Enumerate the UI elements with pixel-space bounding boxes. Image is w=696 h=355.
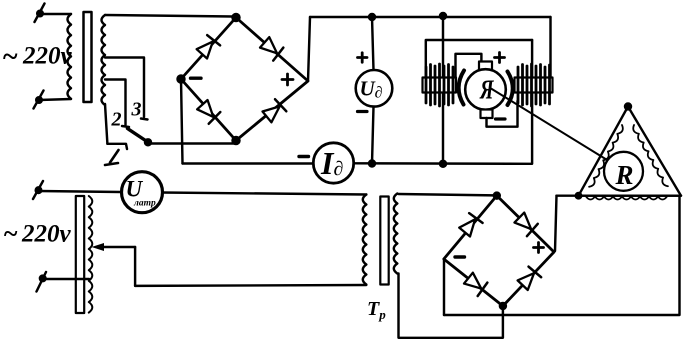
voltmeter Ud body bbox=[356, 70, 393, 107]
label plus bridge2 bbox=[534, 246, 544, 249]
wire secondary bottom to contact 1 bbox=[105, 104, 107, 144]
field winding right turns bbox=[518, 64, 550, 106]
diode VD1.1 top-left bbox=[195, 34, 220, 59]
wire base right corner down and bottom bbox=[444, 196, 680, 315]
wire terminal to T1 primary top bbox=[40, 13, 71, 15]
wire terminal to LATR bbox=[43, 278, 89, 280]
diode VD1.4 bottom-right bbox=[262, 99, 287, 124]
svg-text:220v: 220v bbox=[22, 43, 73, 70]
brush top bbox=[479, 62, 492, 71]
transformer T1 secondary winding bbox=[102, 15, 106, 105]
wire motor inner right vertical bbox=[531, 40, 533, 164]
rheostat dial R body bbox=[604, 152, 643, 191]
label minus ammeter bbox=[299, 155, 309, 158]
field winding left turns bbox=[426, 64, 453, 106]
wire voltmeter top lead bbox=[372, 17, 374, 70]
diode VD2.1 top-left bbox=[458, 212, 482, 237]
wire rheostat base bbox=[557, 194, 682, 196]
svg-text:3: 3 bbox=[131, 99, 142, 121]
voltmeter Ulatr body bbox=[122, 172, 163, 213]
wire bottom rail left bbox=[183, 162, 314, 164]
wire bridge2 top to Tp secondary top bbox=[399, 194, 495, 195]
rheostat body triangle bbox=[579, 107, 682, 196]
contact 2 tick bbox=[122, 126, 129, 127]
wire Tp primary top from Ulatr bbox=[161, 193, 366, 195]
svg-text:латр: латр bbox=[133, 199, 156, 209]
autotransformer LATR core bbox=[76, 196, 84, 313]
switch arm bbox=[128, 129, 149, 143]
wire bottom brush loop bbox=[487, 101, 518, 127]
wire bottom rail right bbox=[354, 162, 532, 165]
transformer Tp secondary winding bbox=[394, 194, 398, 274]
diode VD2.4 bottom-right bbox=[516, 266, 541, 291]
label plus voltmeter bbox=[358, 56, 368, 59]
wire bridge2 bottom loop to Tp secondary bottom bbox=[399, 274, 503, 338]
wire terminal to voltmeter Ulatr bbox=[39, 191, 121, 192]
wire motor inner loop top bbox=[426, 40, 532, 78]
wire T1 primary bottom to terminal bbox=[39, 99, 71, 100]
wire bridge2 minus down bbox=[443, 259, 445, 315]
rheostat winding right bbox=[631, 125, 668, 188]
brush holder arc left bbox=[459, 71, 464, 105]
diode VD2.2 top-right bbox=[514, 211, 539, 236]
ammeter Id body bbox=[313, 143, 353, 183]
svg-text:~: ~ bbox=[3, 219, 18, 248]
svg-text:2: 2 bbox=[111, 109, 122, 131]
contact bar 1 bbox=[107, 144, 127, 149]
transformer T1 primary winding bbox=[68, 14, 72, 99]
wire bridge1 plus up to top rail bbox=[308, 17, 310, 81]
node bridge2 top bbox=[494, 193, 500, 199]
wire left winding to plus brush bbox=[456, 54, 482, 78]
armature body bbox=[465, 69, 506, 110]
label minus bridge1 bbox=[191, 76, 202, 79]
wire Tp primary bottom bbox=[135, 284, 366, 287]
node bridge1 top bbox=[233, 14, 240, 21]
brush bottom bbox=[481, 110, 493, 119]
node rheostat base left bbox=[576, 193, 581, 198]
svg-text:Tр: Tр bbox=[367, 298, 386, 322]
node bottom rail voltmeter bbox=[369, 161, 375, 167]
svg-text:Я: Я bbox=[479, 75, 494, 105]
label plus bridge1 bbox=[282, 78, 293, 81]
wire tap 3 bbox=[105, 58, 144, 118]
label minus armature bbox=[496, 117, 506, 120]
terminal: top AC source upper bbox=[37, 11, 43, 17]
pointer line armature to rheostat bbox=[491, 89, 621, 169]
brush holder arc right bbox=[508, 72, 513, 106]
label minus bridge2 bbox=[455, 255, 465, 258]
svg-text:R: R bbox=[615, 160, 634, 190]
label contact 1 (hand-drawn digit) bbox=[110, 150, 119, 163]
node bottom rail motor bbox=[440, 161, 446, 167]
terminal: bottom AC source lower bbox=[40, 276, 46, 282]
terminal: bottom AC source upper bbox=[36, 187, 42, 193]
autotransformer LATR winding bbox=[89, 196, 93, 313]
diode VD1.2 top-right bbox=[259, 36, 284, 61]
node top rail voltmeter bbox=[369, 14, 375, 20]
node bridge1 left bbox=[178, 76, 185, 83]
contact 3 tick bbox=[141, 119, 148, 120]
wire motor left vertical bbox=[442, 16, 444, 164]
wire base left corner down to bridge2 plus bbox=[555, 196, 557, 251]
wire top rail right end down to right field winding bbox=[549, 17, 551, 78]
node bridge2 bottom bbox=[500, 303, 506, 309]
node bridge1 bottom bbox=[233, 137, 240, 144]
transformer Tp primary winding bbox=[363, 195, 367, 285]
transformer T1 core bbox=[84, 12, 92, 102]
wire top rail bbox=[310, 16, 551, 18]
wire tap 2 bbox=[105, 80, 126, 126]
wire switch arm to bridge bottom bbox=[149, 142, 235, 144]
rheostat winding bottom bbox=[586, 197, 667, 200]
svg-text:220v: 220v bbox=[21, 221, 72, 248]
rectifier bridge VD1 frame bbox=[181, 18, 308, 141]
node top rail motor bbox=[440, 13, 446, 19]
wire secondary top tap to bridge top bbox=[105, 15, 233, 17]
label plus armature bbox=[495, 56, 505, 59]
diode VD2.3 bottom-left bbox=[463, 272, 488, 296]
diode VD1.3 bottom-left bbox=[196, 99, 221, 124]
terminal: top AC source lower bbox=[36, 97, 42, 103]
wire voltmeter bottom lead bbox=[372, 107, 374, 164]
rheostat winding left bbox=[589, 125, 625, 188]
node rheostat apex bbox=[625, 104, 631, 110]
transformer Tp core bbox=[380, 197, 388, 285]
svg-text:~: ~ bbox=[2, 42, 18, 73]
label minus voltmeter bbox=[358, 110, 368, 113]
wire bridge1 minus down bbox=[181, 79, 183, 164]
field winding left bar bbox=[423, 78, 457, 93]
rectifier bridge VD2 frame bbox=[444, 196, 554, 306]
field winding right bar bbox=[515, 78, 553, 93]
LATR wiper arrow bbox=[100, 246, 135, 248]
